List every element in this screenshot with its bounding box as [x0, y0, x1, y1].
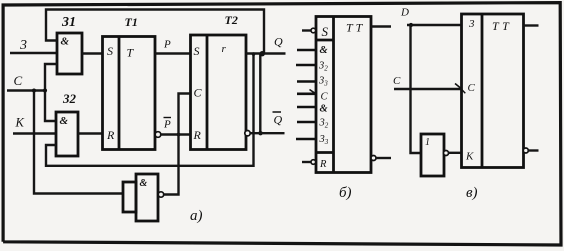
- node: crossing blob Pbar wire: [177, 133, 181, 137]
- node: T2 inverting output bubble: [245, 131, 250, 136]
- inverter gate for clock: [123, 174, 158, 221]
- svg-text:32: 32: [62, 91, 77, 106]
- wire: output Qbar (b): [376, 157, 391, 159]
- IC block TT (v): [462, 14, 524, 168]
- pin &1: [297, 45, 329, 56]
- node: junction dot feedback-Q: [260, 51, 265, 56]
- svg-text:3: 3: [19, 38, 27, 53]
- wire: output Q (v): [524, 24, 539, 26]
- node: Qbar label: [273, 112, 283, 127]
- pin J3: [297, 76, 328, 88]
- svg-text:в): в): [466, 185, 478, 201]
- svg-text:S: S: [194, 44, 200, 58]
- pin K2: [297, 118, 329, 130]
- svg-text:R: R: [193, 128, 202, 142]
- AND gate Z1: [57, 33, 82, 74]
- node: dynamic marker C (v): [455, 84, 465, 94]
- svg-text:Q: Q: [274, 35, 283, 49]
- svg-text:K: K: [15, 116, 25, 130]
- svg-text:T: T: [127, 46, 135, 60]
- svg-text:3: 3: [468, 18, 475, 30]
- svg-text:R: R: [319, 159, 327, 170]
- wire: C input (v): [394, 88, 462, 90]
- node: inverter bubble (v): [444, 151, 449, 156]
- svg-text:S: S: [107, 44, 113, 58]
- svg-text:TT: TT: [492, 19, 512, 33]
- svg-text:&: &: [320, 45, 329, 56]
- IC block TT (b): [316, 17, 371, 173]
- wire: C chain vertical to Z1 and Z2: [45, 64, 57, 121]
- pin C dynamic: [297, 90, 329, 103]
- node: output Qbar bubble (b): [371, 156, 376, 161]
- wire: C input: [7, 89, 45, 91]
- wire: D to inverter input: [411, 25, 422, 153]
- svg-text:K: K: [465, 151, 474, 163]
- svg-text:&: &: [61, 36, 70, 48]
- wire: Qbar output: [250, 132, 284, 134]
- svg-text:Q: Q: [274, 113, 283, 127]
- node: junction dot C chain: [43, 88, 47, 92]
- wire: Q output: [246, 52, 286, 54]
- svg-text:33: 33: [319, 134, 329, 146]
- node: inverter output bubble: [158, 192, 163, 197]
- wire: inverter output to K: [449, 152, 463, 154]
- wire: J input (З): [10, 52, 57, 54]
- node: junction dot Qbar feedback: [258, 131, 262, 135]
- wire: inverted clock to T2 C: [164, 94, 191, 195]
- svg-text:&: &: [320, 104, 329, 115]
- svg-text:C: C: [468, 82, 476, 94]
- node: junction dot D: [409, 23, 413, 27]
- svg-text:P: P: [163, 119, 171, 131]
- wire: Z2 output to T1 R: [78, 132, 103, 134]
- wire: feedback vertical to Qbar wire: [259, 53, 261, 133]
- wire: Pbar output T1 to T2 R: [161, 133, 191, 135]
- svg-text:33: 33: [318, 76, 328, 88]
- flip-flop T1: [103, 37, 156, 150]
- svg-text:32: 32: [319, 118, 329, 130]
- svg-text:T1: T1: [125, 15, 138, 29]
- AND gate Z2: [56, 112, 78, 156]
- flip-flop T2: [191, 35, 247, 150]
- inverter gate 1 (v): [421, 134, 444, 176]
- svg-text:C: C: [14, 73, 23, 88]
- node: junction dot Q to Z2: [252, 52, 256, 56]
- svg-text:C: C: [321, 92, 329, 103]
- node: junction dot C to inverter: [32, 89, 36, 93]
- svg-text:31: 31: [61, 15, 76, 30]
- svg-text:D: D: [400, 7, 409, 19]
- pin K3: [296, 134, 329, 146]
- node: Pbar label: [163, 118, 171, 131]
- svg-text:a): a): [190, 208, 203, 224]
- wire: feedback from Q to Z1 top input: [46, 10, 264, 54]
- wire: C to bottom inverter input: [34, 91, 123, 194]
- pin &2: [297, 104, 329, 115]
- node: T1 inverting output bubble: [155, 132, 161, 138]
- wire: K input: [13, 132, 56, 134]
- svg-text:TT: TT: [346, 21, 365, 35]
- svg-text:S: S: [322, 24, 329, 39]
- wire: Z1 output to T1 S: [82, 52, 103, 54]
- pin J2: [296, 61, 328, 73]
- pin S with bubble: [302, 24, 329, 39]
- wire: P output T1 to T2 S: [155, 52, 191, 54]
- wire: feedback from Qbar to Z2 bottom input: [46, 54, 254, 166]
- svg-text:r: r: [222, 43, 227, 55]
- wire: output Qbar (v): [528, 149, 538, 151]
- svg-text:б): б): [339, 185, 352, 201]
- svg-text:R: R: [106, 128, 115, 142]
- node: output Qbar bubble (v): [523, 148, 528, 153]
- svg-text:32: 32: [318, 61, 328, 73]
- pin R with bubble: [302, 159, 327, 170]
- svg-text:&: &: [60, 115, 69, 127]
- svg-text:P: P: [163, 39, 171, 51]
- svg-text:C: C: [393, 75, 401, 87]
- svg-text:C: C: [194, 86, 203, 100]
- svg-text:T2: T2: [225, 13, 238, 27]
- wire: output Q (b): [371, 25, 391, 27]
- svg-text:1: 1: [425, 137, 430, 148]
- wire: D input: [407, 24, 462, 26]
- svg-text:&: &: [140, 178, 148, 189]
